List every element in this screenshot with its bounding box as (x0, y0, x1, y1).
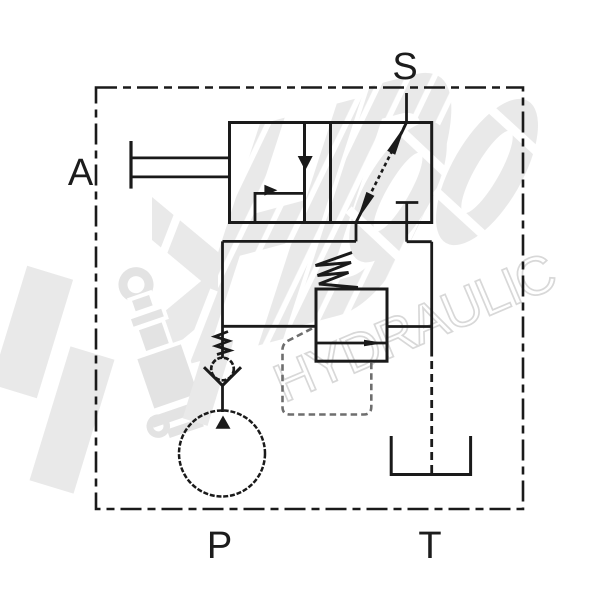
svg-text:T: T (418, 525, 441, 567)
svg-text:A: A (68, 152, 94, 194)
svg-text:S: S (392, 46, 417, 88)
svg-text:P: P (207, 525, 232, 567)
